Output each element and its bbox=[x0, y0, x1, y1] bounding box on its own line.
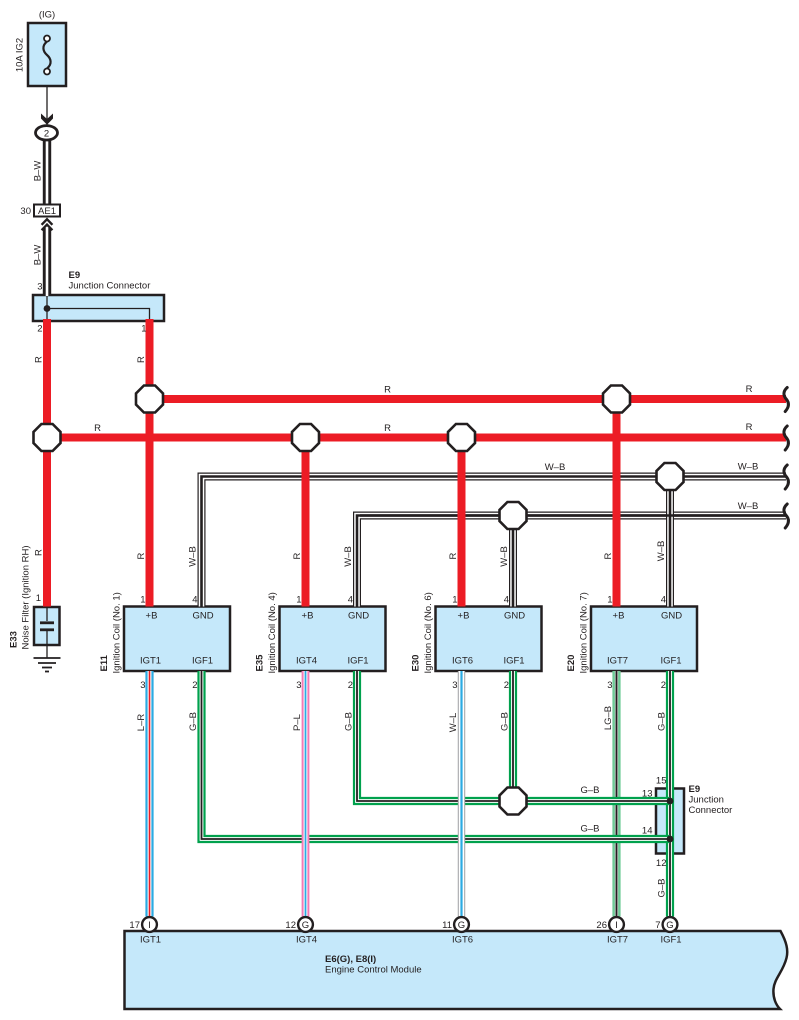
svg-text:30: 30 bbox=[20, 206, 31, 217]
svg-text:(IG): (IG) bbox=[39, 10, 55, 21]
svg-text:G: G bbox=[666, 920, 673, 931]
svg-text:G–B: G–B bbox=[580, 824, 599, 835]
octagon junction R upper at E20 column bbox=[603, 386, 630, 413]
capacitor E33 bbox=[40, 607, 54, 658]
svg-text:E6(G), E8(I): E6(G), E8(I) bbox=[325, 954, 376, 965]
svg-text:3: 3 bbox=[452, 680, 457, 691]
svg-text:1: 1 bbox=[140, 595, 145, 606]
svg-text:W–B: W–B bbox=[738, 501, 759, 512]
svg-text:IGF1: IGF1 bbox=[503, 656, 524, 667]
wire W-L E30 IGT6 to ECM bbox=[458, 671, 465, 917]
octagon junction R lower at E35 column bbox=[292, 424, 319, 451]
svg-text:15: 15 bbox=[656, 776, 667, 787]
svg-text:R: R bbox=[746, 422, 753, 433]
ECM pin circle 7 G bbox=[663, 917, 678, 932]
svg-text:2: 2 bbox=[37, 324, 42, 335]
wire W-B vertical to E20 GND bbox=[666, 477, 674, 607]
svg-text:IGT7: IGT7 bbox=[607, 656, 628, 667]
svg-text:2: 2 bbox=[661, 680, 666, 691]
svg-text:G: G bbox=[302, 920, 309, 931]
svg-text:W–B: W–B bbox=[343, 546, 354, 567]
svg-text:IGT7: IGT7 bbox=[607, 935, 628, 946]
svg-text:IGT4: IGT4 bbox=[296, 656, 317, 667]
noise filter E33 box bbox=[34, 607, 60, 645]
octagon junction R lower at E33 column bbox=[34, 424, 61, 451]
svg-text:1: 1 bbox=[36, 593, 41, 604]
chevron arrows up bbox=[42, 219, 53, 230]
wire G-B E30 IGF1 down to junction bbox=[509, 671, 517, 801]
svg-text:GND: GND bbox=[661, 611, 682, 622]
wire B-W fuse to AE1 bbox=[43, 140, 51, 206]
wire W-B E35 GND up and right bbox=[357, 516, 786, 607]
svg-text:R: R bbox=[384, 423, 391, 434]
svg-text:IGF1: IGF1 bbox=[347, 656, 368, 667]
wire B-W AE1 to E9 pin3 bbox=[43, 228, 51, 296]
svg-text:AE1: AE1 bbox=[38, 206, 56, 217]
svg-text:Junction Connector: Junction Connector bbox=[69, 281, 151, 292]
octagon junction W-B lower at E30 column bbox=[500, 502, 527, 529]
svg-text:W–B: W–B bbox=[188, 546, 199, 567]
svg-text:G–B: G–B bbox=[657, 878, 668, 897]
svg-text:G–B: G–B bbox=[344, 712, 355, 731]
fuse symbol bbox=[43, 36, 50, 75]
svg-text:+B: +B bbox=[146, 611, 158, 622]
ECM pin circle 26 I bbox=[609, 917, 624, 932]
svg-text:R: R bbox=[384, 385, 391, 396]
svg-text:+B: +B bbox=[302, 611, 314, 622]
svg-text:G–B: G–B bbox=[657, 712, 668, 731]
svg-text:Junction: Junction bbox=[689, 795, 724, 806]
svg-text:26: 26 bbox=[596, 920, 607, 931]
wire P-L E35 IGT4 to ECM bbox=[302, 671, 310, 917]
svg-text:E33: E33 bbox=[9, 631, 20, 648]
svg-text:Ignition Coil (No. 7): Ignition Coil (No. 7) bbox=[579, 592, 590, 673]
ignition coil E35 box bbox=[280, 607, 386, 672]
wire R horizontal lower bbox=[47, 434, 786, 442]
svg-text:4: 4 bbox=[192, 595, 197, 606]
wire R vertical to E35 +B bbox=[302, 438, 310, 607]
svg-text:Ignition Coil (No. 4): Ignition Coil (No. 4) bbox=[267, 592, 278, 673]
svg-text:3: 3 bbox=[37, 282, 42, 293]
svg-text:Noise Filter (Ignition RH): Noise Filter (Ignition RH) bbox=[21, 546, 32, 650]
svg-text:W–B: W–B bbox=[656, 541, 667, 562]
svg-text:R: R bbox=[603, 552, 614, 559]
svg-text:12: 12 bbox=[656, 858, 667, 869]
svg-text:LG–B: LG–B bbox=[603, 706, 614, 730]
svg-text:IGT1: IGT1 bbox=[140, 656, 161, 667]
ignition coil E30 box bbox=[436, 607, 542, 672]
wire break symbol W-B upper right bbox=[784, 465, 789, 489]
svg-text:2: 2 bbox=[348, 680, 353, 691]
wire R vertical to E20 +B bbox=[613, 399, 621, 607]
svg-text:11: 11 bbox=[442, 920, 452, 931]
svg-text:R: R bbox=[94, 423, 101, 434]
svg-text:R: R bbox=[34, 356, 45, 363]
ground symbol bbox=[34, 658, 61, 672]
svg-text:W–B: W–B bbox=[499, 546, 510, 567]
svg-text:1: 1 bbox=[607, 595, 612, 606]
AE1 box bbox=[34, 205, 60, 217]
ECM pin circle 17 I bbox=[142, 917, 157, 932]
svg-text:4: 4 bbox=[661, 595, 666, 606]
svg-text:1: 1 bbox=[141, 324, 146, 335]
svg-text:B–W: B–W bbox=[33, 245, 44, 266]
junction dot E9 pin14 bbox=[667, 836, 674, 843]
wire LG-B E20 IGT7 to ECM bbox=[612, 671, 620, 917]
svg-text:+B: +B bbox=[458, 611, 470, 622]
svg-text:E11: E11 bbox=[99, 654, 110, 671]
svg-text:IGF1: IGF1 bbox=[660, 656, 681, 667]
svg-text:E9: E9 bbox=[689, 784, 701, 795]
ECM pin circle 12 G bbox=[298, 917, 313, 932]
svg-text:GND: GND bbox=[192, 611, 213, 622]
svg-text:14: 14 bbox=[642, 826, 653, 837]
svg-text:IGF1: IGF1 bbox=[660, 935, 681, 946]
svg-text:Connector: Connector bbox=[689, 805, 733, 816]
svg-text:W–L: W–L bbox=[448, 713, 459, 733]
wire G-B E35 IGF1 to E9 pin13 bbox=[357, 671, 670, 801]
svg-text:G: G bbox=[458, 920, 465, 931]
svg-text:4: 4 bbox=[504, 595, 509, 606]
junction connector E9 (top) box bbox=[33, 295, 164, 321]
wire break symbol R lower right bbox=[784, 426, 789, 450]
octagon junction R lower at E30 column bbox=[448, 424, 475, 451]
svg-text:R: R bbox=[292, 552, 303, 559]
svg-text:B–W: B–W bbox=[33, 161, 44, 182]
svg-text:Engine Control Module: Engine Control Module bbox=[325, 965, 422, 976]
svg-text:IGT6: IGT6 bbox=[452, 935, 473, 946]
svg-text:IGF1: IGF1 bbox=[192, 656, 213, 667]
svg-text:R: R bbox=[34, 549, 45, 556]
svg-text:17: 17 bbox=[129, 920, 140, 931]
wire W-B E11 GND up and right bbox=[202, 477, 787, 607]
E9 internal links (top) bbox=[47, 296, 150, 320]
wire R vertical E9 pin1 to E11 +B bbox=[146, 319, 154, 607]
svg-text:12: 12 bbox=[285, 920, 296, 931]
fuse box 10A IG2 bbox=[28, 23, 66, 86]
ECM module box E6(G),E8(I) bbox=[125, 931, 788, 1009]
wire G-B E20 IGF1 to ECM through E9 bbox=[666, 671, 674, 917]
ignition coil E20 box bbox=[591, 607, 697, 672]
junction connector E9 (bottom) box bbox=[656, 789, 684, 854]
connector oval 2 bbox=[36, 126, 58, 140]
svg-text:10A IG2: 10A IG2 bbox=[15, 38, 26, 72]
svg-text:R: R bbox=[136, 356, 147, 363]
wire fuse to arrow bbox=[46, 87, 48, 126]
octagon junction R upper at E9 pin1 wire bbox=[136, 386, 163, 413]
svg-text:3: 3 bbox=[140, 680, 145, 691]
svg-text:E9: E9 bbox=[69, 270, 81, 281]
ignition coil E11 box bbox=[124, 607, 230, 672]
wire break symbol W-B lower right bbox=[784, 504, 789, 528]
svg-text:I: I bbox=[615, 920, 618, 931]
svg-text:E30: E30 bbox=[411, 655, 422, 672]
svg-text:1: 1 bbox=[452, 595, 457, 606]
arrow head down bbox=[41, 114, 53, 125]
svg-text:R: R bbox=[746, 384, 753, 395]
svg-text:1: 1 bbox=[296, 595, 301, 606]
wire W-B vertical to E30 GND bbox=[509, 516, 517, 607]
wire W-B lower horizontal centre over crossing bbox=[360, 514, 786, 517]
svg-text:+B: +B bbox=[613, 611, 625, 622]
wire R horizontal upper bbox=[150, 395, 787, 403]
svg-text:IGT6: IGT6 bbox=[452, 656, 473, 667]
svg-text:G–B: G–B bbox=[500, 712, 511, 731]
svg-text:I: I bbox=[148, 920, 151, 931]
svg-text:3: 3 bbox=[296, 680, 301, 691]
svg-text:7: 7 bbox=[655, 920, 660, 931]
svg-text:2: 2 bbox=[504, 680, 509, 691]
svg-text:4: 4 bbox=[348, 595, 353, 606]
svg-text:P–L: P–L bbox=[292, 714, 303, 731]
wire R vertical E9 pin2 to E33 bbox=[43, 319, 51, 607]
svg-text:GND: GND bbox=[504, 611, 525, 622]
ECM pin circle 11 G bbox=[454, 917, 469, 932]
svg-text:Ignition Coil (No. 6): Ignition Coil (No. 6) bbox=[423, 592, 434, 673]
octagon junction W-B upper at E20 column bbox=[657, 463, 684, 490]
svg-text:R: R bbox=[448, 552, 459, 559]
svg-text:G–B: G–B bbox=[580, 785, 599, 796]
svg-text:Ignition Coil (No. 1): Ignition Coil (No. 1) bbox=[112, 592, 123, 673]
svg-text:W–B: W–B bbox=[738, 462, 759, 473]
svg-text:2: 2 bbox=[192, 680, 197, 691]
svg-text:3: 3 bbox=[607, 680, 612, 691]
svg-text:E20: E20 bbox=[566, 655, 577, 672]
svg-text:E35: E35 bbox=[255, 654, 266, 672]
junction dot E9 pin13 bbox=[667, 798, 674, 805]
wire G-B E11 IGF1 to E9 pin14 bbox=[202, 671, 671, 839]
junction dot E9 pin3 bbox=[44, 305, 51, 312]
svg-text:W–B: W–B bbox=[545, 462, 566, 473]
svg-text:IGT1: IGT1 bbox=[140, 935, 161, 946]
svg-text:GND: GND bbox=[348, 611, 369, 622]
wire L-R E11 IGT1 to ECM bbox=[145, 671, 153, 917]
svg-text:L–R: L–R bbox=[136, 714, 147, 732]
svg-text:G–B: G–B bbox=[188, 712, 199, 731]
svg-text:IGT4: IGT4 bbox=[296, 935, 317, 946]
svg-text:13: 13 bbox=[642, 789, 653, 800]
wire break symbol R upper right bbox=[784, 388, 789, 412]
wire R vertical to E30 +B bbox=[458, 438, 466, 607]
svg-text:2: 2 bbox=[44, 128, 49, 139]
svg-text:R: R bbox=[136, 552, 147, 559]
octagon junction G-B at E30 column bbox=[500, 788, 527, 815]
